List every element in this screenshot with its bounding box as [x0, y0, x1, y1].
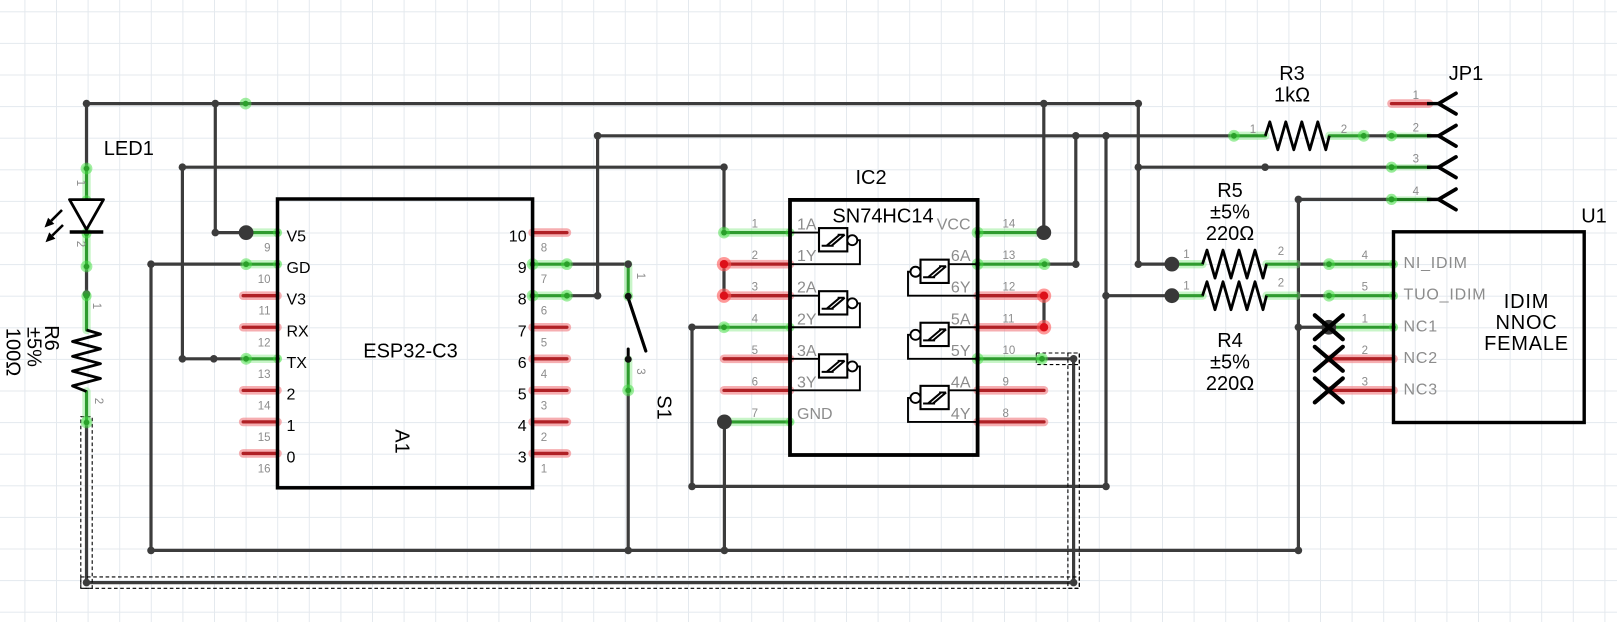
svg-text:0: 0 [287, 449, 296, 466]
svg-text:2: 2 [1278, 246, 1284, 258]
svg-text:1: 1 [1183, 249, 1189, 261]
svg-text:±5%: ±5% [23, 327, 45, 367]
svg-text:5Y: 5Y [951, 343, 971, 360]
svg-text:1: 1 [90, 303, 102, 309]
svg-text:1: 1 [74, 180, 86, 186]
svg-text:2: 2 [1413, 122, 1419, 134]
svg-text:1: 1 [752, 219, 758, 231]
svg-text:6A: 6A [951, 248, 971, 265]
svg-text:NC1: NC1 [1404, 318, 1438, 335]
svg-text:14: 14 [258, 400, 271, 412]
svg-text:7: 7 [541, 274, 547, 286]
svg-text:10: 10 [1003, 345, 1016, 357]
svg-text:2: 2 [92, 398, 104, 404]
svg-text:4: 4 [1413, 186, 1420, 198]
svg-text:2A: 2A [797, 280, 817, 297]
svg-text:NNOC: NNOC [1495, 312, 1557, 334]
svg-text:5A: 5A [951, 311, 971, 328]
svg-text:4Y: 4Y [951, 406, 971, 423]
svg-text:13: 13 [258, 369, 271, 381]
svg-text:3: 3 [541, 400, 547, 412]
svg-text:12: 12 [1003, 282, 1016, 294]
svg-text:NC2: NC2 [1404, 350, 1438, 367]
svg-text:1kΩ: 1kΩ [1274, 85, 1310, 107]
svg-text:4: 4 [1362, 250, 1369, 262]
svg-text:1: 1 [1413, 90, 1419, 102]
svg-text:1: 1 [287, 418, 296, 435]
svg-text:6: 6 [541, 306, 547, 318]
svg-text:NI_IDIM: NI_IDIM [1404, 255, 1468, 272]
svg-text:12: 12 [258, 337, 271, 349]
svg-text:GD: GD [287, 260, 311, 277]
svg-text:10: 10 [258, 274, 271, 286]
svg-text:ESP32-C3: ESP32-C3 [363, 341, 458, 363]
svg-text:IDIM: IDIM [1504, 291, 1549, 313]
svg-text:S1: S1 [653, 395, 675, 419]
svg-text:1: 1 [1250, 124, 1256, 136]
svg-text:U1: U1 [1581, 206, 1607, 228]
svg-text:TX: TX [287, 355, 308, 372]
svg-text:±5%: ±5% [1210, 202, 1250, 224]
svg-text:3: 3 [1413, 154, 1419, 166]
svg-text:6: 6 [752, 376, 758, 388]
svg-text:8: 8 [541, 243, 547, 255]
svg-text:VCC: VCC [937, 217, 971, 234]
svg-text:2: 2 [541, 432, 547, 444]
svg-text:FEMALE: FEMALE [1484, 333, 1569, 355]
svg-text:4: 4 [752, 313, 759, 325]
svg-text:JP1: JP1 [1449, 63, 1483, 85]
svg-text:1A: 1A [797, 217, 817, 234]
svg-text:14: 14 [1003, 219, 1016, 231]
svg-text:3: 3 [518, 449, 527, 466]
svg-text:R5: R5 [1217, 180, 1243, 202]
svg-text:3A: 3A [797, 343, 817, 360]
svg-text:A1: A1 [390, 429, 412, 453]
svg-text:IC2: IC2 [855, 167, 886, 189]
svg-text:10: 10 [509, 229, 527, 246]
svg-text:GND: GND [797, 406, 833, 423]
svg-text:V5: V5 [287, 229, 307, 246]
svg-text:R4: R4 [1217, 330, 1243, 352]
svg-text:15: 15 [258, 432, 271, 444]
svg-text:9: 9 [264, 243, 270, 255]
svg-text:LED1: LED1 [104, 138, 154, 160]
svg-text:5: 5 [752, 345, 758, 357]
svg-text:8: 8 [518, 292, 527, 309]
svg-text:6: 6 [518, 355, 527, 372]
svg-text:8: 8 [1003, 408, 1009, 420]
svg-text:7: 7 [518, 323, 527, 340]
svg-text:SN74HC14: SN74HC14 [832, 206, 933, 228]
svg-text:1: 1 [634, 273, 646, 279]
svg-text:2: 2 [1278, 278, 1284, 290]
svg-text:RX: RX [287, 323, 310, 340]
svg-text:220Ω: 220Ω [1206, 223, 1254, 245]
svg-text:3: 3 [1362, 376, 1368, 388]
svg-text:1: 1 [1362, 313, 1368, 325]
svg-text:2Y: 2Y [797, 311, 817, 328]
svg-text:11: 11 [259, 306, 271, 318]
svg-text:16: 16 [258, 463, 271, 475]
svg-text:3Y: 3Y [797, 374, 817, 391]
svg-text:1Y: 1Y [797, 248, 817, 265]
svg-text:6Y: 6Y [951, 280, 971, 297]
svg-text:220Ω: 220Ω [1206, 373, 1254, 395]
svg-text:4A: 4A [951, 374, 971, 391]
svg-text:NC3: NC3 [1404, 381, 1438, 398]
svg-text:2: 2 [752, 250, 758, 262]
svg-text:11: 11 [1003, 313, 1015, 325]
svg-text:±5%: ±5% [1210, 352, 1250, 374]
svg-text:3: 3 [634, 368, 646, 374]
svg-text:7: 7 [752, 408, 758, 420]
svg-text:5: 5 [518, 386, 527, 403]
svg-text:100Ω: 100Ω [2, 328, 24, 376]
svg-text:2: 2 [287, 386, 296, 403]
svg-text:5: 5 [1362, 282, 1368, 294]
svg-text:13: 13 [1003, 250, 1016, 262]
svg-text:9: 9 [1003, 376, 1009, 388]
svg-text:4: 4 [541, 369, 548, 381]
svg-text:9: 9 [518, 260, 527, 277]
svg-text:4: 4 [518, 418, 527, 435]
svg-text:V3: V3 [287, 292, 307, 309]
svg-text:2: 2 [74, 241, 86, 247]
svg-text:1: 1 [1183, 281, 1189, 293]
svg-text:5: 5 [541, 337, 547, 349]
svg-text:1: 1 [541, 463, 547, 475]
svg-text:TUO_IDIM: TUO_IDIM [1404, 287, 1487, 304]
svg-text:2: 2 [1341, 124, 1347, 136]
svg-text:2: 2 [1362, 345, 1368, 357]
svg-text:3: 3 [752, 282, 758, 294]
svg-text:R3: R3 [1279, 63, 1305, 85]
